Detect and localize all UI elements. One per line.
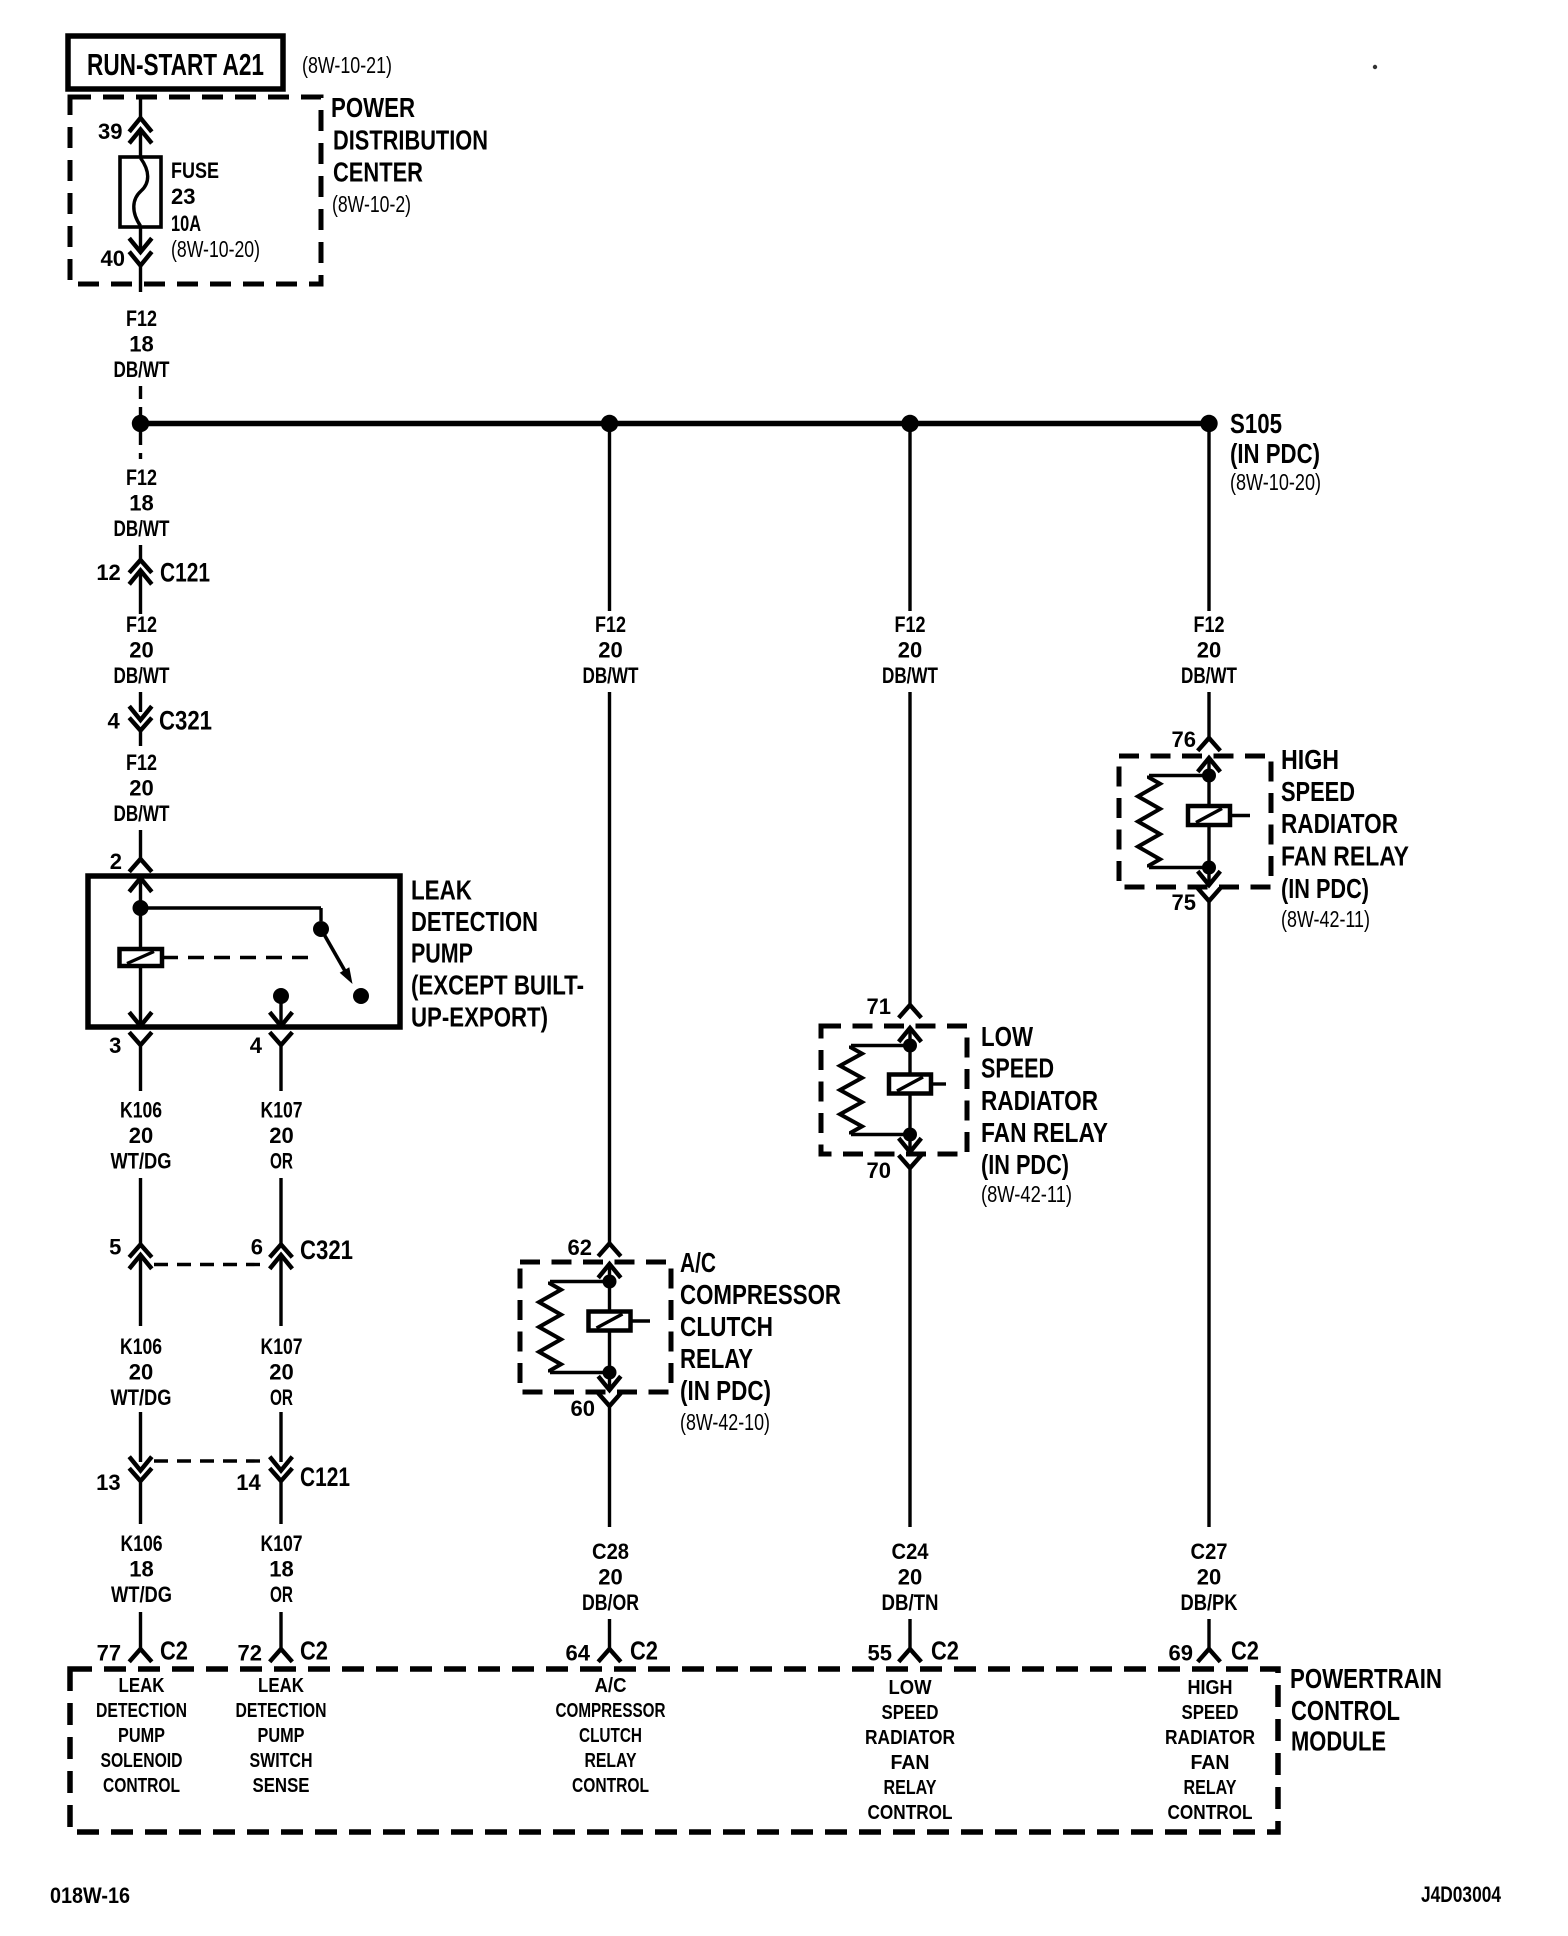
S105 (IN PDC) label xyxy=(1230,408,1321,495)
svg-text:LOW: LOW xyxy=(889,1677,932,1699)
low speed radiator fan relay bottom junction dot xyxy=(903,1128,917,1142)
svg-text:F12: F12 xyxy=(126,306,157,331)
svg-text:DB/WT: DB/WT xyxy=(114,357,170,382)
wire to fuse xyxy=(139,130,142,159)
low speed relay pin 71 fork xyxy=(867,994,922,1019)
svg-text:OR: OR xyxy=(270,1149,293,1174)
wire col4 to C27 label xyxy=(1207,901,1210,1527)
svg-text:SOLENOID: SOLENOID xyxy=(101,1750,183,1772)
svg-text:20: 20 xyxy=(598,1565,622,1590)
leak pump junction dot xyxy=(133,900,149,916)
svg-text:(8W-10-20): (8W-10-20) xyxy=(171,236,260,262)
svg-text:20: 20 xyxy=(598,638,622,663)
svg-text:RADIATOR: RADIATOR xyxy=(1165,1727,1255,1749)
svg-text:(8W-42-11): (8W-42-11) xyxy=(981,1181,1072,1207)
HIGH SPEED RADIATOR FAN RELAY label xyxy=(1281,744,1409,932)
connector C321 pin 5 xyxy=(109,1235,152,1269)
svg-text:64: 64 xyxy=(566,1641,591,1666)
leak pump switch fixed contact dot xyxy=(313,921,329,937)
svg-text:10A: 10A xyxy=(171,211,201,236)
svg-text:DB/WT: DB/WT xyxy=(114,663,170,688)
svg-text:12: 12 xyxy=(96,560,120,585)
wire to leak pump xyxy=(139,830,142,859)
svg-text:C321: C321 xyxy=(159,706,212,736)
a/c compressor clutch relay pin fork below xyxy=(598,1393,621,1406)
connector C121 pin 12 xyxy=(96,558,210,588)
junction dot col2 xyxy=(601,415,618,432)
svg-text:F12: F12 xyxy=(126,612,157,637)
svg-text:FAN: FAN xyxy=(891,1752,930,1774)
high speed relay pin 76 fork xyxy=(1172,727,1221,752)
svg-text:C121: C121 xyxy=(300,1462,350,1492)
a/c compressor clutch relay top junction dot xyxy=(603,1275,617,1289)
wire label C28 20 DB/OR xyxy=(582,1539,639,1615)
svg-text:CONTROL: CONTROL xyxy=(103,1775,180,1797)
wire label K106 18 WT/DG xyxy=(111,1531,172,1607)
bus wire from splice S105 xyxy=(141,421,1210,427)
svg-text:69: 69 xyxy=(1169,1641,1193,1666)
svg-text:UP-EXPORT): UP-EXPORT) xyxy=(411,1002,548,1033)
wire col2 from splice xyxy=(608,429,611,611)
wire col3 to PCM xyxy=(908,1619,911,1649)
svg-text:4: 4 xyxy=(250,1033,263,1058)
svg-text:SPEED: SPEED xyxy=(882,1702,939,1724)
svg-text:DB/OR: DB/OR xyxy=(582,1590,639,1615)
svg-text:F12: F12 xyxy=(1194,612,1225,637)
svg-text:RUN-START A21: RUN-START A21 xyxy=(87,47,264,82)
svg-text:20: 20 xyxy=(1197,1565,1221,1590)
svg-text:LOW: LOW xyxy=(981,1021,1033,1052)
svg-text:J4D03004: J4D03004 xyxy=(1421,1882,1502,1907)
PCM pin 72 function label xyxy=(236,1675,327,1797)
dashed wire into splice xyxy=(139,386,142,416)
svg-text:C2: C2 xyxy=(931,1636,959,1666)
leak pump solenoid coil xyxy=(120,949,163,966)
svg-text:20: 20 xyxy=(129,638,153,663)
a/c compressor clutch relay pin chevron top xyxy=(598,1264,621,1278)
wire below pin 3 xyxy=(139,1045,142,1091)
svg-text:DB/WT: DB/WT xyxy=(114,516,170,541)
svg-text:WT/DG: WT/DG xyxy=(111,1149,172,1174)
wire below C321 pin5 xyxy=(139,1255,142,1326)
svg-text:LEAK: LEAK xyxy=(411,875,472,906)
svg-text:FAN RELAY: FAN RELAY xyxy=(1281,841,1409,872)
wire col3 to C24 label xyxy=(908,1168,911,1527)
fuse 23 10A xyxy=(120,157,161,227)
svg-text:13: 13 xyxy=(96,1470,120,1495)
junction dot col1 xyxy=(132,415,149,432)
svg-text:K107: K107 xyxy=(261,1334,303,1359)
PCM pin 69 function label xyxy=(1165,1677,1255,1824)
reference (8W-10-21) xyxy=(302,52,392,78)
wire to PCM pin72 xyxy=(279,1612,282,1649)
svg-text:DB/WT: DB/WT xyxy=(583,663,639,688)
svg-text:POWER: POWER xyxy=(331,92,415,123)
svg-text:DB/WT: DB/WT xyxy=(1181,663,1237,688)
svg-text:20: 20 xyxy=(269,1123,293,1148)
svg-text:S105: S105 xyxy=(1230,408,1282,439)
svg-text:CONTROL: CONTROL xyxy=(1291,1695,1400,1726)
connector C321 pin 4 xyxy=(107,706,212,736)
A/C relay pin 60 label xyxy=(571,1396,595,1421)
A/C COMPRESSOR CLUTCH RELAY label xyxy=(680,1247,841,1435)
svg-text:DETECTION: DETECTION xyxy=(236,1700,327,1722)
a/c compressor clutch relay resistor xyxy=(539,1282,610,1373)
svg-text:PUMP: PUMP xyxy=(258,1725,305,1747)
wire label K107 20 OR (upper) xyxy=(261,1098,303,1174)
svg-text:RADIATOR: RADIATOR xyxy=(865,1727,955,1749)
svg-text:RADIATOR: RADIATOR xyxy=(981,1085,1098,1116)
C321 label xyxy=(300,1235,353,1265)
svg-text:3: 3 xyxy=(109,1033,121,1058)
svg-text:C121: C121 xyxy=(160,558,210,588)
wire label F12 20 DB/WT (col4) xyxy=(1181,612,1237,688)
svg-text:RELAY: RELAY xyxy=(585,1750,638,1772)
svg-text:(IN PDC): (IN PDC) xyxy=(680,1375,771,1406)
leak pump switch lower contact dot xyxy=(353,988,369,1004)
a/c compressor clutch relay pin chevron bottom xyxy=(598,1376,621,1390)
svg-text:(IN PDC): (IN PDC) xyxy=(1230,438,1320,469)
wire exiting PDC xyxy=(139,266,142,293)
svg-text:K106: K106 xyxy=(120,1334,162,1359)
svg-text:DB/TN: DB/TN xyxy=(882,1590,939,1615)
wire below C121 pin14 xyxy=(279,1481,282,1524)
wire col2 to A/C relay xyxy=(608,692,611,1244)
svg-text:RELAY: RELAY xyxy=(680,1343,753,1374)
pin 39 double chevron xyxy=(98,118,152,144)
wire to C321 xyxy=(139,692,142,712)
svg-text:LEAK: LEAK xyxy=(258,1675,304,1697)
svg-text:PUMP: PUMP xyxy=(411,938,473,969)
svg-text:(8W-42-10): (8W-42-10) xyxy=(680,1409,770,1435)
svg-text:SPEED: SPEED xyxy=(981,1053,1054,1084)
svg-text:DETECTION: DETECTION xyxy=(411,906,538,937)
PCM pin 64 function label xyxy=(556,1675,666,1797)
low speed relay pin 70 label xyxy=(867,1158,891,1183)
wire label K106 20 WT/DG (lower) xyxy=(111,1334,172,1410)
svg-text:C2: C2 xyxy=(160,1636,188,1666)
svg-text:POWERTRAIN: POWERTRAIN xyxy=(1290,1663,1442,1694)
svg-text:18: 18 xyxy=(129,1557,153,1582)
svg-text:018W-16: 018W-16 xyxy=(50,1883,130,1908)
wire col3 to low speed relay xyxy=(908,692,911,1005)
C121 dashed connector line xyxy=(154,1459,268,1462)
svg-text:COMPRESSOR: COMPRESSOR xyxy=(556,1700,666,1722)
svg-text:WT/DG: WT/DG xyxy=(111,1582,172,1607)
svg-text:C2: C2 xyxy=(300,1636,328,1666)
high speed radiator fan relay top junction dot xyxy=(1202,769,1216,783)
wire label F12 20 DB/WT (col1 upper) xyxy=(114,612,170,688)
svg-text:C321: C321 xyxy=(300,1235,353,1265)
wire below C121 xyxy=(139,571,142,615)
PCM pin 77 function label xyxy=(96,1675,187,1797)
junction dot col3 xyxy=(901,415,918,432)
wire to PCM pin77 xyxy=(139,1612,142,1649)
svg-text:23: 23 xyxy=(171,184,195,209)
svg-text:DB/PK: DB/PK xyxy=(1181,1590,1238,1615)
PCM pin 55 fork C2 xyxy=(868,1636,959,1666)
svg-text:SPEED: SPEED xyxy=(1182,1702,1239,1724)
svg-text:70: 70 xyxy=(867,1158,891,1183)
svg-text:20: 20 xyxy=(129,1123,153,1148)
svg-text:DB/WT: DB/WT xyxy=(114,801,170,826)
high speed radiator fan relay box xyxy=(1119,756,1271,887)
svg-text:SWITCH: SWITCH xyxy=(250,1750,313,1772)
svg-text:75: 75 xyxy=(1172,890,1196,915)
wire below fuse xyxy=(139,227,142,253)
wire col4 to high speed relay xyxy=(1207,692,1210,738)
svg-text:WT/DG: WT/DG xyxy=(111,1385,172,1410)
low speed radiator fan relay pin chevron bottom xyxy=(899,1138,922,1152)
leak pump pin4 wire xyxy=(279,996,282,1025)
wire col4 from splice xyxy=(1207,429,1210,611)
svg-text:MODULE: MODULE xyxy=(1291,1726,1386,1757)
dashed wire below splice col1 xyxy=(139,432,142,459)
wire K107 to C121 xyxy=(279,1412,282,1462)
svg-text:55: 55 xyxy=(868,1641,892,1666)
svg-text:C2: C2 xyxy=(630,1636,658,1666)
splice S105 dot xyxy=(1200,415,1217,432)
svg-text:HIGH: HIGH xyxy=(1281,744,1339,775)
powertrain control module box xyxy=(70,1669,1278,1832)
PCM pin 55 function label xyxy=(865,1677,955,1824)
A/C relay pin 62 fork xyxy=(568,1235,621,1260)
svg-text:F12: F12 xyxy=(595,612,626,637)
svg-text:(EXCEPT BUILT-: (EXCEPT BUILT- xyxy=(411,970,584,1001)
svg-text:K107: K107 xyxy=(261,1531,303,1556)
svg-text:CONTROL: CONTROL xyxy=(1168,1802,1253,1824)
leak pump pin2 chevron xyxy=(129,878,152,892)
wire K106 to C121 xyxy=(139,1412,142,1462)
POWER DISTRIBUTION CENTER label xyxy=(331,92,488,217)
leak pump internal wire xyxy=(139,878,142,949)
pin 40 double chevron xyxy=(101,238,152,271)
svg-text:CONTROL: CONTROL xyxy=(868,1802,953,1824)
leak pump wire below solenoid xyxy=(139,966,142,1025)
svg-text:K107: K107 xyxy=(261,1098,303,1123)
C121 label xyxy=(300,1462,350,1492)
wire below C121 pin13 xyxy=(139,1481,142,1524)
a/c compressor clutch relay bottom junction dot xyxy=(603,1366,617,1380)
svg-text:18: 18 xyxy=(269,1557,293,1582)
high speed relay pin 75 label xyxy=(1172,890,1196,915)
C321 dashed connector line xyxy=(154,1263,268,1266)
svg-text:20: 20 xyxy=(898,1565,922,1590)
svg-text:C28: C28 xyxy=(592,1539,629,1564)
LOW SPEED RADIATOR FAN RELAY label xyxy=(981,1021,1108,1207)
svg-text:CLUTCH: CLUTCH xyxy=(579,1725,642,1747)
low speed radiator fan relay pin fork below xyxy=(899,1155,922,1168)
svg-text:(IN PDC): (IN PDC) xyxy=(981,1149,1069,1180)
a/c compressor clutch relay coil wire xyxy=(608,1264,611,1390)
svg-text:20: 20 xyxy=(269,1360,293,1385)
wire label F12 20 DB/WT (col1 lower) xyxy=(114,750,170,826)
footer drawing number J4D03004 xyxy=(1421,1882,1502,1907)
svg-text:RELAY: RELAY xyxy=(884,1777,938,1799)
low speed radiator fan relay resistor xyxy=(840,1046,910,1135)
svg-text:39: 39 xyxy=(98,119,122,144)
svg-text:77: 77 xyxy=(97,1641,121,1666)
svg-text:A/C: A/C xyxy=(595,1675,627,1697)
low speed radiator fan relay top junction dot xyxy=(903,1039,917,1053)
svg-text:18: 18 xyxy=(129,332,153,357)
fuse label xyxy=(171,158,260,262)
svg-text:DB/WT: DB/WT xyxy=(882,663,938,688)
leak pump pin 4 fork xyxy=(250,1032,293,1058)
power distribution center dashed box xyxy=(70,97,321,284)
wire label F12 20 DB/WT (col3) xyxy=(882,612,938,688)
a/c compressor clutch relay box xyxy=(520,1262,671,1392)
wire below pin 4 xyxy=(279,1045,282,1091)
wire label F12 18 DB/WT (below splice) xyxy=(114,465,170,541)
wire below C321 xyxy=(139,731,142,747)
high speed radiator fan relay pin fork below xyxy=(1198,888,1221,901)
svg-text:A/C: A/C xyxy=(680,1247,716,1278)
svg-text:K106: K106 xyxy=(121,1531,163,1556)
wire label C24 20 DB/TN xyxy=(882,1539,939,1615)
connector C121 pin 13 xyxy=(96,1457,152,1495)
svg-text:6: 6 xyxy=(251,1235,263,1260)
low speed radiator fan relay box xyxy=(821,1026,967,1154)
PCM pin 64 fork C2 xyxy=(566,1636,658,1666)
svg-text:C27: C27 xyxy=(1191,1539,1228,1564)
wire label C27 20 DB/PK xyxy=(1181,1539,1238,1615)
RUN-START A21 source box xyxy=(68,36,283,89)
svg-text:20: 20 xyxy=(898,638,922,663)
high speed radiator fan relay resistor xyxy=(1138,776,1209,868)
leak pump pin4 contact dot xyxy=(273,988,289,1004)
wire label K106 20 WT/DG (upper) xyxy=(111,1098,172,1174)
wire col3 from splice xyxy=(908,429,911,611)
PCM pin 69 fork C2 xyxy=(1169,1636,1259,1666)
svg-text:FAN RELAY: FAN RELAY xyxy=(981,1117,1108,1148)
wire col4 to PCM xyxy=(1207,1619,1210,1649)
svg-text:C24: C24 xyxy=(892,1539,930,1564)
svg-text:2: 2 xyxy=(110,849,122,874)
svg-text:OR: OR xyxy=(270,1582,293,1607)
wire col2 to C28 label xyxy=(608,1406,611,1527)
svg-text:60: 60 xyxy=(571,1396,595,1421)
wire col2 to PCM xyxy=(608,1619,611,1649)
leak pump wire to switch xyxy=(141,908,322,921)
svg-text:(IN PDC): (IN PDC) xyxy=(1281,873,1369,904)
low speed radiator fan relay pin chevron top xyxy=(899,1028,922,1042)
svg-text:PUMP: PUMP xyxy=(118,1725,165,1747)
connector C121 pin 14 xyxy=(236,1457,292,1495)
leak pump switch blade xyxy=(321,929,353,984)
svg-text:F12: F12 xyxy=(895,612,926,637)
footer sheet number 018W-16 xyxy=(50,1883,130,1908)
high speed radiator fan relay pin chevron bottom xyxy=(1198,871,1221,885)
wire below C321 pin6 xyxy=(279,1255,282,1326)
svg-text:14: 14 xyxy=(236,1470,261,1495)
leak pump actuation dashed link xyxy=(162,956,313,959)
svg-text:RADIATOR: RADIATOR xyxy=(1281,808,1398,839)
svg-text:(8W-10-2): (8W-10-2) xyxy=(332,191,411,217)
svg-text:LEAK: LEAK xyxy=(119,1675,165,1697)
svg-text:K106: K106 xyxy=(120,1098,162,1123)
svg-text:RELAY: RELAY xyxy=(1184,1777,1238,1799)
POWERTRAIN CONTROL MODULE label xyxy=(1290,1663,1442,1757)
svg-text:CENTER: CENTER xyxy=(333,157,423,188)
leak pump pin4 chevron xyxy=(270,1012,293,1026)
low speed radiator fan relay coil xyxy=(889,1075,946,1094)
wire pin39 xyxy=(139,97,142,119)
svg-text:62: 62 xyxy=(568,1235,592,1260)
svg-text:71: 71 xyxy=(867,994,891,1019)
svg-text:CONTROL: CONTROL xyxy=(572,1775,649,1797)
LEAK DETECTION PUMP label xyxy=(411,875,584,1033)
svg-text:COMPRESSOR: COMPRESSOR xyxy=(680,1279,841,1310)
high speed radiator fan relay coil xyxy=(1188,806,1250,825)
svg-text:5: 5 xyxy=(109,1235,121,1260)
svg-text:20: 20 xyxy=(129,1360,153,1385)
svg-text:FAN: FAN xyxy=(1191,1752,1230,1774)
leak detection pump box xyxy=(88,876,400,1027)
PCM pin 77 fork C2 xyxy=(97,1636,188,1666)
a/c compressor clutch relay coil xyxy=(589,1312,651,1331)
svg-text:HIGH: HIGH xyxy=(1188,1677,1233,1699)
high speed radiator fan relay pin chevron top xyxy=(1198,758,1221,772)
svg-text:OR: OR xyxy=(270,1385,293,1410)
wire K107 to C321 xyxy=(279,1178,282,1245)
wire K106 to C321 xyxy=(139,1178,142,1245)
svg-text:SPEED: SPEED xyxy=(1281,776,1355,807)
svg-text:(8W-10-21): (8W-10-21) xyxy=(302,52,392,78)
leak pump pin 2 fork xyxy=(110,849,152,874)
svg-text:40: 40 xyxy=(101,246,125,271)
svg-text:20: 20 xyxy=(129,776,153,801)
svg-text:SENSE: SENSE xyxy=(253,1775,310,1797)
low speed radiator fan relay coil wire xyxy=(908,1028,911,1152)
wire to C121 xyxy=(139,545,142,560)
svg-text:C2: C2 xyxy=(1231,1636,1259,1666)
svg-text:CLUTCH: CLUTCH xyxy=(680,1311,773,1342)
svg-text:DISTRIBUTION: DISTRIBUTION xyxy=(333,125,488,156)
high speed radiator fan relay bottom junction dot xyxy=(1202,861,1216,875)
svg-text:18: 18 xyxy=(129,491,153,516)
PCM pin 72 fork C2 xyxy=(238,1636,328,1666)
wire label F12 18 DB/WT (top) xyxy=(114,306,170,382)
leak pump pin3 chevron xyxy=(129,1012,152,1026)
svg-text:FUSE: FUSE xyxy=(171,158,219,183)
svg-text:(8W-42-11): (8W-42-11) xyxy=(1281,906,1370,932)
wire label K107 18 OR xyxy=(261,1531,303,1607)
svg-text:F12: F12 xyxy=(126,750,157,775)
high speed radiator fan relay coil wire xyxy=(1207,758,1210,885)
svg-text:4: 4 xyxy=(107,709,120,734)
wire label K107 20 OR (lower) xyxy=(261,1334,303,1410)
svg-text:F12: F12 xyxy=(126,465,157,490)
stray scan speck xyxy=(1373,65,1377,69)
svg-text:DETECTION: DETECTION xyxy=(96,1700,187,1722)
connector C321 pin 6 xyxy=(251,1235,293,1269)
leak pump pin 3 fork xyxy=(109,1032,152,1058)
svg-text:20: 20 xyxy=(1197,638,1221,663)
wire label F12 20 DB/WT (col2) xyxy=(583,612,639,688)
svg-text:72: 72 xyxy=(238,1641,262,1666)
svg-text:(8W-10-20): (8W-10-20) xyxy=(1230,469,1321,495)
svg-text:76: 76 xyxy=(1172,727,1196,752)
